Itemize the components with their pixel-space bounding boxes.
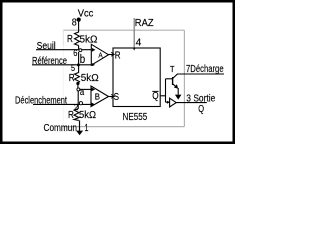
svg-text:Commun: Commun [44,123,78,134]
node a no-connect circle [77,88,80,91]
svg-text:Q: Q [152,91,159,102]
transistor T emitter with arrow [173,84,177,87]
wire collector to Décharge pin 7 [177,73,224,75]
wire Déclenchement (pin 2) to comparator B lower input [33,103,91,105]
wire comparator B output to flip-flop S [109,96,113,98]
svg-text:Q: Q [198,104,204,115]
node b junction dot [77,63,80,66]
svg-text:5: 5 [71,63,75,73]
arrowhead into inverter [167,101,170,104]
wire node a to comparator B upper input [79,88,91,90]
comparator A input arrow (pin 6) [92,48,96,52]
wire node a down to pin2 crossing [77,91,79,105]
svg-text:A: A [98,53,103,60]
wire Q-bar output to junction [160,95,165,97]
svg-text:RAZ: RAZ [135,18,154,29]
node R2 bottom junction dot [76,82,79,85]
arrowhead into R input [111,52,114,56]
svg-text:b: b [80,54,85,66]
svg-text:S: S [114,92,120,103]
svg-text:5kΩ: 5kΩ [81,72,99,84]
node pin2 no-connect circle [79,102,82,105]
wire comparator A output to flip-flop R [109,54,113,56]
comparator A [91,44,108,65]
node Vcc junction dot [77,18,81,22]
comparator B input arrow (pin 2) [92,103,95,106]
wire Vcc dot to resistor R1 [78,20,80,33]
svg-text:NE555: NE555 [123,112,148,123]
flip-flop U1 box [113,48,160,107]
inverter (output buffer) [170,98,177,107]
transistor T collector [173,74,178,78]
resistor R1 zigzag [75,32,80,46]
arrowhead RAZ into flip-flop [133,48,136,51]
svg-text:7Décharge: 7Décharge [186,64,224,75]
svg-text:6: 6 [73,48,77,58]
wire RAZ (pin 4) down to flip-flop [133,18,135,48]
comparator B [91,86,109,107]
svg-text:B: B [95,91,101,101]
svg-text:8: 8 [72,17,77,28]
wire divider pin6 to node b junction [78,52,80,65]
svg-text:R: R [69,73,75,84]
node pin6 no-connect circle [79,49,82,52]
wire node b to resistor R2 [78,65,80,73]
resistor R3 zigzag [74,109,79,121]
IC NE555 boundary box [63,30,184,126]
svg-text:R: R [67,34,73,45]
ground arrow (emitter) [175,95,182,100]
wire R2 bottom to node a [77,84,79,89]
comparator B input arrow (node a) [92,88,96,92]
wire R1 bottom to pin6 crossing [78,46,80,50]
transistor T base bar [172,77,174,85]
ground arrow (Commun pin 1) [79,120,81,130]
arrowhead into S input [111,94,114,98]
svg-text:4: 4 [136,37,142,49]
svg-text:Seuil: Seuil [37,41,56,52]
svg-text:R: R [115,50,121,61]
wire junction to inverter input [166,101,170,103]
svg-text:Vcc: Vcc [78,8,94,19]
svg-text:a: a [80,87,85,98]
wire emitter down [177,88,179,95]
wire pin2 to resistor R3 [77,104,79,109]
comparator A input arrow (node b) [92,63,95,66]
wire junction vertical [165,79,167,102]
svg-text:5kΩ: 5kΩ [79,109,96,121]
wire Seuil (pin 6) to comparator A [36,49,91,51]
svg-text:5kΩ: 5kΩ [80,34,98,46]
svg-text:T: T [170,64,175,74]
svg-text:3 Sortie: 3 Sortie [186,93,215,104]
svg-text:1: 1 [85,123,89,134]
resistor R2 zigzag [75,73,80,84]
wire Référence (pin 5) to comparator A lower input [32,64,91,66]
wire inverter output to Sortie pin 3 [176,102,207,104]
wire to transistor base [166,78,173,80]
